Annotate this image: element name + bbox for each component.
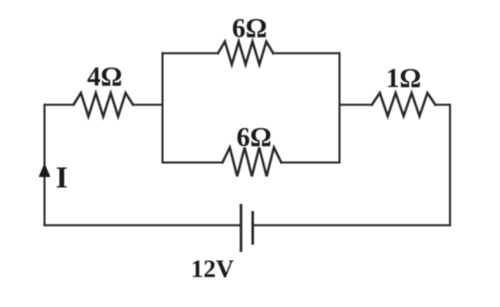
svg-text:1Ω: 1Ω <box>386 63 421 93</box>
svg-text:I: I <box>56 160 68 195</box>
svg-text:12V: 12V <box>191 256 234 283</box>
svg-text:4Ω: 4Ω <box>87 62 122 92</box>
svg-text:6Ω: 6Ω <box>232 13 267 43</box>
svg-text:6Ω: 6Ω <box>236 122 271 152</box>
